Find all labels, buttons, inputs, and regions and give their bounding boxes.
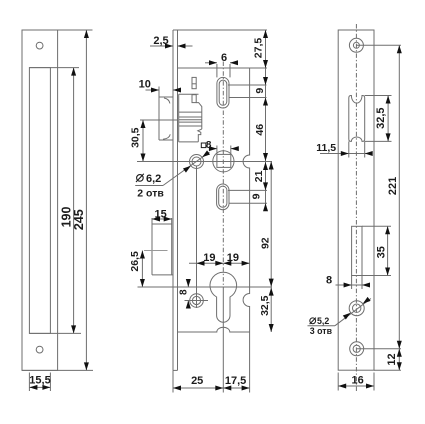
svg-text:19: 19 — [203, 252, 215, 264]
svg-text:221: 221 — [387, 177, 399, 195]
top hole extension line — [356, 44, 401, 46]
faceplate bottom edge — [173, 369, 178, 371]
keyhole vertical centerline dash-dot — [222, 62, 224, 288]
faceplate left line — [172, 30, 174, 370]
svg-text:2,5: 2,5 — [153, 35, 168, 47]
follower square 8mm — [217, 154, 231, 167]
svg-text:11,5: 11,5 — [316, 142, 336, 154]
svg-text:12: 12 — [386, 353, 398, 365]
svg-text:6: 6 — [221, 52, 227, 64]
dimension 35 — [387, 226, 389, 275]
bottom extension faceplate — [172, 370, 174, 392]
svg-text:3 отв: 3 отв — [310, 326, 333, 336]
extension line 9-upper top — [228, 84, 267, 86]
middle screw hole — [349, 301, 364, 316]
mechanism pin 2 — [192, 95, 196, 103]
dimension chain line A — [265, 30, 267, 211]
svg-text:92: 92 — [259, 237, 271, 249]
svg-text:46: 46 — [254, 124, 266, 136]
latch assembly top line — [179, 93, 199, 95]
dimension 32,5 right — [387, 96, 389, 142]
body bottom edge with center bump — [178, 327, 250, 332]
latch axis extension line — [140, 119, 178, 121]
hole B 6.2mm — [190, 294, 204, 308]
oblong slot 2 inner — [219, 186, 227, 207]
bottom hole extension line — [357, 348, 401, 350]
deadbolt middle line — [144, 250, 168, 252]
right plate centerline dash-dot — [355, 24, 357, 391]
lower slot bottom extension — [362, 275, 391, 277]
svg-text:9: 9 — [254, 88, 266, 94]
dimension 16 — [337, 373, 339, 391]
dimension 190 — [73, 68, 75, 334]
body right edge with two notches — [243, 68, 250, 332]
svg-text:32,5: 32,5 — [259, 295, 271, 316]
lower slot top extension — [362, 225, 391, 227]
mechanism pin 1 — [192, 77, 196, 88]
svg-text:245: 245 — [72, 209, 86, 230]
svg-text:9: 9 — [250, 193, 262, 199]
left plate inner recess rectangle — [29, 68, 50, 334]
dimension 15 — [152, 218, 172, 220]
dimension 6 — [216, 64, 218, 77]
leader line dia 6,2 — [135, 185, 163, 187]
svg-text:32,5: 32,5 — [375, 107, 387, 128]
follower hole circle — [213, 151, 234, 172]
deadbolt box — [152, 218, 173, 275]
latch assembly upper beak — [196, 103, 202, 113]
latch head protruding — [159, 97, 173, 140]
lower slot cutout — [352, 226, 362, 275]
hole A 6.2mm — [190, 155, 204, 169]
latch assembly bottom line — [179, 141, 199, 143]
latch head top bevel arc — [164, 98, 170, 103]
extension line 9-lower bottom — [229, 202, 267, 204]
cam slot top extension — [365, 95, 392, 97]
latch assembly lower beak — [198, 129, 202, 142]
euro cylinder keyhole — [210, 272, 237, 322]
svg-text:35: 35 — [376, 246, 388, 258]
extension line 9-upper bottom — [229, 97, 267, 99]
svg-text:21: 21 — [253, 170, 265, 182]
dimension 2,5 — [150, 45, 173, 47]
svg-text:27,5: 27,5 — [252, 38, 264, 59]
oblong slot 2 outer — [217, 184, 229, 210]
follower horizontal centerline — [137, 161, 272, 163]
svg-text:17,5: 17,5 — [225, 375, 246, 387]
oblong slot 1 inner — [219, 80, 227, 105]
faceplate top edge + extension — [173, 29, 267, 31]
left plate bottom extension line — [22, 369, 93, 371]
svg-text:5,2: 5,2 — [317, 316, 329, 326]
svg-text:26,5: 26,5 — [129, 251, 141, 272]
right plate bottom extension — [374, 369, 401, 371]
label dia 6,2 — [136, 174, 144, 182]
svg-text:16: 16 — [351, 374, 363, 386]
bottom extension body edge — [249, 332, 251, 393]
svg-text:19: 19 — [227, 252, 239, 264]
svg-text:25: 25 — [191, 375, 203, 387]
dimension 30,5 — [142, 120, 144, 162]
label dia 5,2 — [310, 318, 316, 325]
latch assembly left edge — [178, 94, 180, 142]
svg-text:15,5: 15,5 — [29, 375, 50, 387]
inner recess top extension — [29, 67, 79, 69]
svg-text:15: 15 — [154, 208, 166, 220]
top screw hole — [349, 38, 363, 52]
left plate top screw hole — [36, 42, 43, 49]
dimension chain line B — [270, 162, 272, 333]
keyhole centerline solid lower — [222, 287, 224, 393]
left plate outline — [22, 30, 58, 370]
holes A-B centerline — [196, 166, 198, 308]
svg-text:10: 10 — [139, 79, 151, 91]
cam slot bottom extension — [365, 140, 392, 142]
hole B horizontal centerline — [185, 300, 209, 302]
left plate bottom screw hole — [36, 346, 43, 353]
latch head bottom bevel arc — [163, 134, 170, 139]
cam slot cutout — [349, 96, 365, 142]
svg-text:6,2: 6,2 — [146, 173, 161, 185]
left plate top extension line — [22, 29, 93, 31]
oblong slot 1 outer — [217, 77, 229, 108]
svg-text:30,5: 30,5 — [130, 127, 142, 148]
body top edge + extension — [178, 67, 268, 69]
cylinder horizontal centerline — [138, 286, 273, 288]
dimension 15,5 — [28, 373, 30, 392]
dimension 8 middle — [187, 279, 189, 287]
leader line dia 5,2 — [308, 325, 336, 327]
svg-text:8: 8 — [206, 140, 212, 151]
svg-text:8: 8 — [178, 289, 189, 295]
bottom screw hole — [350, 342, 364, 356]
dimension 8 right — [351, 276, 353, 290]
faceplate right line — [177, 30, 179, 370]
dimension square-8 — [216, 146, 218, 155]
latch assembly right edge — [201, 112, 203, 129]
dimension 11,5 — [348, 141, 350, 157]
dimension 19 19 — [189, 262, 250, 264]
svg-text:2 отв: 2 отв — [137, 187, 164, 199]
dimension 26,5 — [141, 251, 143, 288]
dimension 245 — [85, 30, 87, 370]
dimension 10 — [146, 89, 160, 91]
inner recess bottom extension — [29, 332, 81, 334]
dimension 12 — [398, 349, 400, 370]
dimension 25 and 17,5 — [173, 387, 250, 389]
latch stripes — [179, 111, 202, 113]
dimension 221 — [398, 45, 400, 349]
svg-text:8: 8 — [326, 274, 332, 286]
latch head extension for dim 10 — [158, 87, 160, 98]
extension line 21-bottom — [228, 189, 267, 191]
right plate outline — [338, 30, 374, 370]
